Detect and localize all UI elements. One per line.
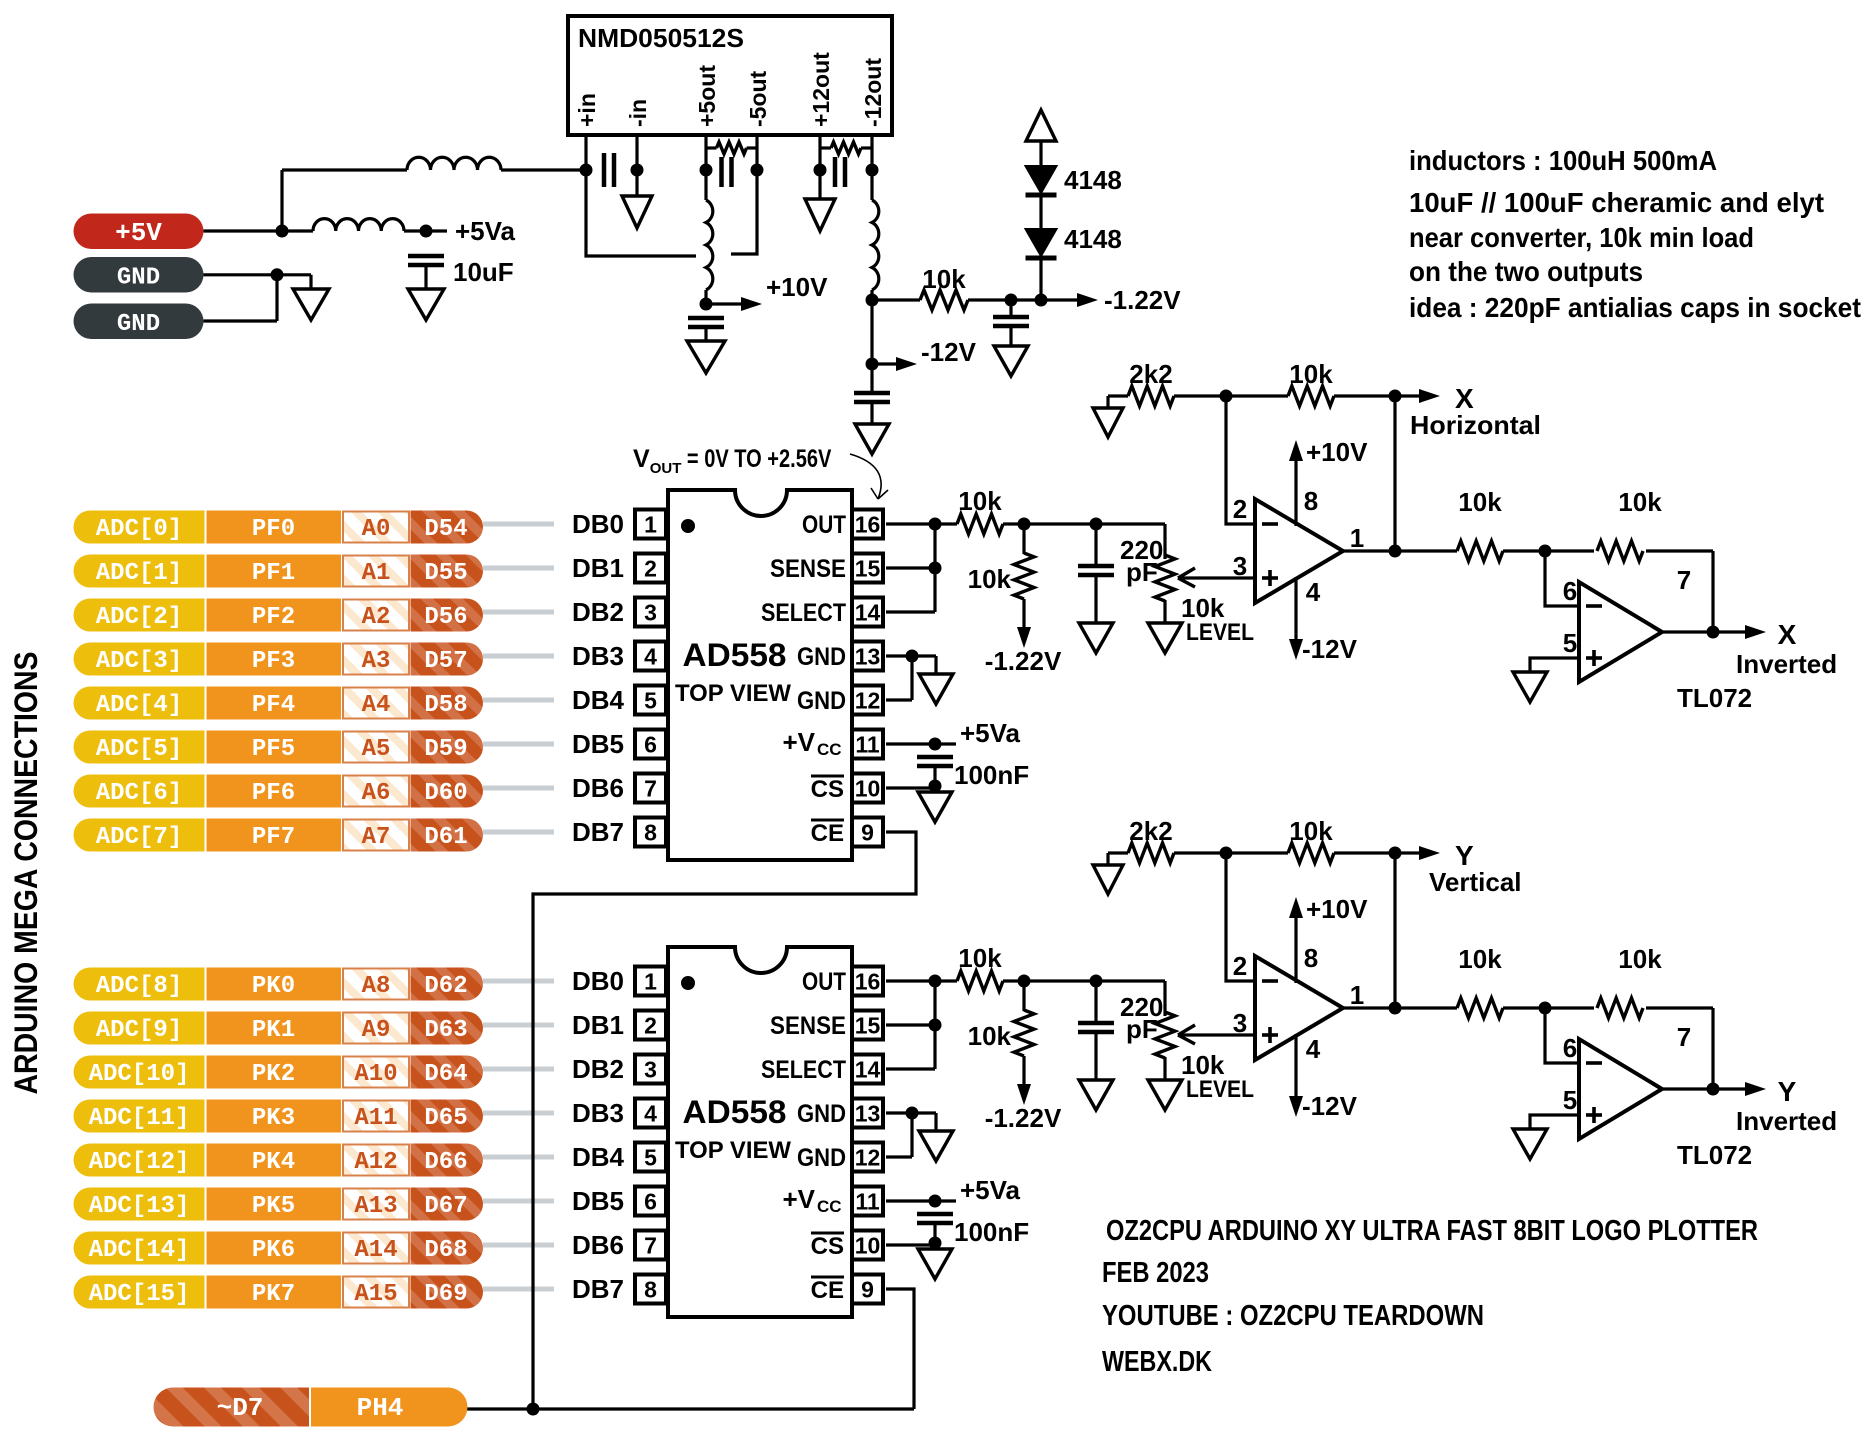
svg-text:3: 3: [1233, 1008, 1247, 1038]
svg-text:4: 4: [644, 644, 657, 670]
svg-text:ADC[2]: ADC[2]: [96, 604, 182, 631]
svg-text:A7: A7: [362, 824, 391, 851]
svg-text:D61: D61: [424, 824, 467, 851]
svg-text:-in: -in: [625, 99, 651, 127]
svg-text:DB7: DB7: [572, 817, 624, 847]
svg-text:4148: 4148: [1064, 165, 1122, 195]
svg-text:Horizontal: Horizontal: [1410, 410, 1541, 440]
svg-text:5: 5: [644, 1145, 657, 1171]
svg-text:3: 3: [644, 600, 657, 626]
svg-text:10k: 10k: [958, 486, 1002, 516]
svg-text:8: 8: [644, 1277, 657, 1303]
svg-text:DB2: DB2: [572, 1054, 624, 1084]
svg-text:AD558: AD558: [683, 637, 787, 673]
svg-text:-1.22V: -1.22V: [985, 1103, 1062, 1133]
svg-text:A13: A13: [354, 1193, 397, 1220]
svg-text:PK2: PK2: [252, 1061, 295, 1088]
svg-text:+5Va: +5Va: [960, 1175, 1021, 1205]
svg-text:DB3: DB3: [572, 1098, 624, 1128]
svg-text:12: 12: [855, 688, 881, 714]
svg-text:LEVEL: LEVEL: [1186, 619, 1254, 646]
svg-text:PF2: PF2: [252, 604, 295, 631]
svg-text:DB6: DB6: [572, 1230, 624, 1260]
svg-text:+V: +V: [782, 727, 815, 757]
svg-text:A9: A9: [362, 1017, 391, 1044]
svg-text:CS: CS: [811, 1233, 844, 1260]
svg-text:DB5: DB5: [572, 729, 624, 759]
svg-text:5: 5: [1563, 628, 1577, 658]
svg-text:LEVEL: LEVEL: [1186, 1076, 1254, 1103]
svg-text:YOUTUBE : OZ2CPU TEARDOWN: YOUTUBE : OZ2CPU TEARDOWN: [1102, 1300, 1484, 1332]
svg-text:4148: 4148: [1064, 224, 1122, 254]
svg-text:10k: 10k: [1618, 944, 1662, 974]
svg-text:FEB 2023: FEB 2023: [1102, 1257, 1209, 1289]
svg-text:PK6: PK6: [252, 1237, 295, 1264]
svg-text:10: 10: [855, 1233, 881, 1259]
svg-text:16: 16: [855, 512, 881, 538]
svg-text:+V: +V: [782, 1184, 815, 1214]
svg-text:6: 6: [644, 1189, 657, 1215]
svg-text:A10: A10: [354, 1061, 397, 1088]
svg-text:A12: A12: [354, 1149, 397, 1176]
svg-text:A5: A5: [362, 736, 391, 763]
svg-text:-5out: -5out: [745, 70, 771, 127]
svg-text:10k: 10k: [1458, 487, 1502, 517]
svg-text:14: 14: [855, 1057, 881, 1083]
svg-text:PK5: PK5: [252, 1193, 295, 1220]
svg-text:PK0: PK0: [252, 973, 295, 1000]
svg-text:A8: A8: [362, 973, 391, 1000]
svg-text:A14: A14: [354, 1237, 397, 1264]
svg-text:D69: D69: [424, 1281, 467, 1308]
svg-text:D68: D68: [424, 1237, 467, 1264]
svg-text:16: 16: [855, 969, 881, 995]
svg-text:+in: +in: [574, 93, 600, 127]
svg-text:TOP VIEW: TOP VIEW: [675, 680, 791, 707]
svg-text:GND: GND: [797, 1100, 846, 1128]
svg-text:A15: A15: [354, 1281, 397, 1308]
svg-text:100nF: 100nF: [954, 760, 1029, 790]
svg-text:ADC[9]: ADC[9]: [96, 1017, 182, 1044]
svg-text:D59: D59: [424, 736, 467, 763]
svg-text:2: 2: [644, 556, 657, 582]
svg-text:10k: 10k: [958, 943, 1002, 973]
svg-text:DB4: DB4: [572, 685, 625, 715]
svg-text:CE: CE: [811, 820, 844, 847]
svg-text:3: 3: [1233, 551, 1247, 581]
svg-text:SELECT: SELECT: [761, 599, 846, 627]
svg-text:D54: D54: [424, 516, 467, 543]
svg-text:DB0: DB0: [572, 966, 624, 996]
svg-text:Vertical: Vertical: [1429, 867, 1522, 897]
svg-text:13: 13: [855, 644, 881, 670]
svg-text:D55: D55: [424, 560, 467, 587]
svg-text:X: X: [1778, 619, 1797, 650]
svg-text:near converter, 10k min load: near converter, 10k min load: [1409, 222, 1754, 253]
svg-text:8: 8: [1304, 943, 1318, 973]
svg-text:DB2: DB2: [572, 597, 624, 627]
svg-text:7: 7: [644, 1233, 657, 1259]
svg-text:10k: 10k: [922, 264, 966, 294]
svg-text:+10V: +10V: [1306, 894, 1368, 924]
svg-text:13: 13: [855, 1101, 881, 1127]
svg-text:10k: 10k: [1289, 359, 1333, 389]
svg-text:A11: A11: [354, 1105, 397, 1132]
svg-text:9: 9: [861, 1277, 874, 1303]
svg-text:D62: D62: [424, 973, 467, 1000]
svg-text:4: 4: [1306, 1034, 1321, 1064]
svg-text:1: 1: [644, 512, 657, 538]
svg-text:9: 9: [861, 820, 874, 846]
svg-text:D67: D67: [424, 1193, 467, 1220]
svg-text:2: 2: [1233, 494, 1247, 524]
svg-text:PF6: PF6: [252, 780, 295, 807]
svg-text:ADC[5]: ADC[5]: [96, 736, 182, 763]
svg-text:4: 4: [644, 1101, 657, 1127]
svg-text:12: 12: [855, 1145, 881, 1171]
svg-text:+5out: +5out: [694, 65, 720, 127]
svg-text:D56: D56: [424, 604, 467, 631]
svg-text:DB1: DB1: [572, 553, 624, 583]
svg-text:11: 11: [855, 732, 880, 758]
svg-text:6: 6: [644, 732, 657, 758]
svg-text:2k2: 2k2: [1129, 359, 1172, 389]
svg-text:10: 10: [855, 776, 881, 802]
svg-text:-12V: -12V: [1302, 634, 1358, 664]
svg-text:D58: D58: [424, 692, 467, 719]
svg-text:ADC[8]: ADC[8]: [96, 973, 182, 1000]
svg-text:GND: GND: [797, 1144, 846, 1172]
svg-text:2: 2: [644, 1013, 657, 1039]
svg-text:PF1: PF1: [252, 560, 295, 587]
svg-text:+12out: +12out: [808, 52, 834, 127]
svg-text:-12V: -12V: [921, 337, 977, 367]
svg-text:PF3: PF3: [252, 648, 295, 675]
svg-text:SENSE: SENSE: [770, 555, 846, 583]
svg-text:GND: GND: [797, 687, 846, 715]
svg-text:GND: GND: [117, 311, 160, 338]
svg-text:+10V: +10V: [766, 272, 828, 302]
svg-text:A1: A1: [362, 560, 391, 587]
svg-text:DB4: DB4: [572, 1142, 625, 1172]
svg-text:PK4: PK4: [252, 1149, 295, 1176]
svg-text:~D7: ~D7: [217, 1393, 264, 1423]
svg-text:10k: 10k: [968, 564, 1012, 594]
svg-text:OUT: OUT: [802, 968, 846, 996]
svg-text:CC: CC: [817, 740, 842, 759]
svg-text:DB1: DB1: [572, 1010, 624, 1040]
svg-text:GND: GND: [117, 265, 160, 292]
svg-text:TOP VIEW: TOP VIEW: [675, 1137, 791, 1164]
svg-text:on the two outputs: on the two outputs: [1409, 256, 1643, 287]
svg-text:5: 5: [644, 688, 657, 714]
svg-text:11: 11: [855, 1189, 880, 1215]
svg-text:6: 6: [1563, 576, 1577, 606]
svg-text:ADC[14]: ADC[14]: [89, 1237, 190, 1264]
svg-text:DB3: DB3: [572, 641, 624, 671]
svg-text:3: 3: [644, 1057, 657, 1083]
svg-text:10uF // 100uF cheramic and ely: 10uF // 100uF cheramic and elyt: [1409, 187, 1824, 218]
svg-text:ADC[13]: ADC[13]: [89, 1193, 190, 1220]
svg-text:ADC[0]: ADC[0]: [96, 516, 182, 543]
svg-text:ADC[3]: ADC[3]: [96, 648, 182, 675]
svg-text:ADC[11]: ADC[11]: [89, 1105, 190, 1132]
svg-text:PF0: PF0: [252, 516, 295, 543]
svg-text:100nF: 100nF: [954, 1217, 1029, 1247]
svg-text:SELECT: SELECT: [761, 1056, 846, 1084]
svg-text:1: 1: [644, 969, 657, 995]
svg-text:D60: D60: [424, 780, 467, 807]
svg-text:7: 7: [644, 776, 657, 802]
svg-text:1: 1: [1350, 523, 1364, 553]
svg-text:Inverted: Inverted: [1736, 649, 1837, 679]
svg-text:DB0: DB0: [572, 509, 624, 539]
svg-text:10k: 10k: [968, 1021, 1012, 1051]
svg-text:A4: A4: [362, 692, 391, 719]
svg-text:ADC[7]: ADC[7]: [96, 824, 182, 851]
svg-text:1: 1: [1350, 980, 1364, 1010]
svg-text:AD558: AD558: [683, 1094, 787, 1130]
svg-text:WEBX.DK: WEBX.DK: [1102, 1346, 1212, 1378]
svg-text:-1.22V: -1.22V: [1104, 285, 1181, 315]
svg-text:DB7: DB7: [572, 1274, 624, 1304]
svg-text:10uF: 10uF: [453, 257, 514, 287]
svg-text:ADC[10]: ADC[10]: [89, 1061, 190, 1088]
svg-text:5: 5: [1563, 1085, 1577, 1115]
svg-text:4: 4: [1306, 577, 1321, 607]
svg-text:NMD050512S: NMD050512S: [578, 23, 744, 53]
svg-text:OUT: OUT: [802, 511, 846, 539]
svg-text:ADC[15]: ADC[15]: [89, 1281, 190, 1308]
svg-text:D65: D65: [424, 1105, 467, 1132]
svg-text:+5V: +5V: [115, 218, 162, 248]
svg-text:ARDUINO MEGA CONNECTIONS: ARDUINO MEGA CONNECTIONS: [8, 652, 44, 1095]
svg-text:TL072: TL072: [1677, 683, 1752, 713]
svg-text:OZ2CPU ARDUINO XY ULTRA FAST 8: OZ2CPU ARDUINO XY ULTRA FAST 8BIT LOGO P…: [1106, 1215, 1758, 1247]
svg-text:Y: Y: [1778, 1076, 1797, 1107]
svg-text:D63: D63: [424, 1017, 467, 1044]
svg-text:ADC[12]: ADC[12]: [89, 1149, 190, 1176]
svg-text:6: 6: [1563, 1033, 1577, 1063]
svg-text:-12V: -12V: [1302, 1091, 1358, 1121]
svg-text:ADC[1]: ADC[1]: [96, 560, 182, 587]
svg-text:TL072: TL072: [1677, 1140, 1752, 1170]
svg-text:8: 8: [1304, 486, 1318, 516]
svg-text:PK7: PK7: [252, 1281, 295, 1308]
svg-text:7: 7: [1677, 1022, 1691, 1052]
svg-text:7: 7: [1677, 565, 1691, 595]
svg-text:CE: CE: [811, 1277, 844, 1304]
svg-text:PF5: PF5: [252, 736, 295, 763]
svg-text:15: 15: [855, 556, 881, 582]
svg-text:PK3: PK3: [252, 1105, 295, 1132]
svg-text:2: 2: [1233, 951, 1247, 981]
svg-text:CC: CC: [817, 1197, 842, 1216]
svg-text:+10V: +10V: [1306, 437, 1368, 467]
svg-text:PH4: PH4: [357, 1393, 404, 1423]
svg-text:+5Va: +5Va: [455, 216, 516, 246]
svg-text:2k2: 2k2: [1129, 816, 1172, 846]
svg-text:DB6: DB6: [572, 773, 624, 803]
svg-text:15: 15: [855, 1013, 881, 1039]
svg-text:A2: A2: [362, 604, 391, 631]
svg-text:D64: D64: [424, 1061, 467, 1088]
svg-text:14: 14: [855, 600, 881, 626]
svg-text:DB5: DB5: [572, 1186, 624, 1216]
svg-text:PF4: PF4: [252, 692, 295, 719]
svg-text:PK1: PK1: [252, 1017, 295, 1044]
svg-text:inductors : 100uH 500mA: inductors : 100uH 500mA: [1409, 145, 1717, 176]
svg-text:+5Va: +5Va: [960, 718, 1021, 748]
svg-text:10k: 10k: [1618, 487, 1662, 517]
svg-text:8: 8: [644, 820, 657, 846]
svg-text:D66: D66: [424, 1149, 467, 1176]
svg-text:10k: 10k: [1458, 944, 1502, 974]
svg-text:CS: CS: [811, 776, 844, 803]
svg-text:A6: A6: [362, 780, 391, 807]
svg-text:10k: 10k: [1289, 816, 1333, 846]
svg-text:ADC[6]: ADC[6]: [96, 780, 182, 807]
svg-text:idea : 220pF antialias caps in: idea : 220pF antialias caps in socket: [1409, 292, 1861, 323]
svg-text:-12out: -12out: [860, 58, 886, 127]
svg-text:A3: A3: [362, 648, 391, 675]
svg-text:A0: A0: [362, 516, 391, 543]
svg-text:-1.22V: -1.22V: [985, 646, 1062, 676]
svg-text:SENSE: SENSE: [770, 1012, 846, 1040]
svg-text:PF7: PF7: [252, 824, 295, 851]
svg-text:Inverted: Inverted: [1736, 1106, 1837, 1136]
svg-text:D57: D57: [424, 648, 467, 675]
svg-text:GND: GND: [797, 643, 846, 671]
svg-text:ADC[4]: ADC[4]: [96, 692, 182, 719]
